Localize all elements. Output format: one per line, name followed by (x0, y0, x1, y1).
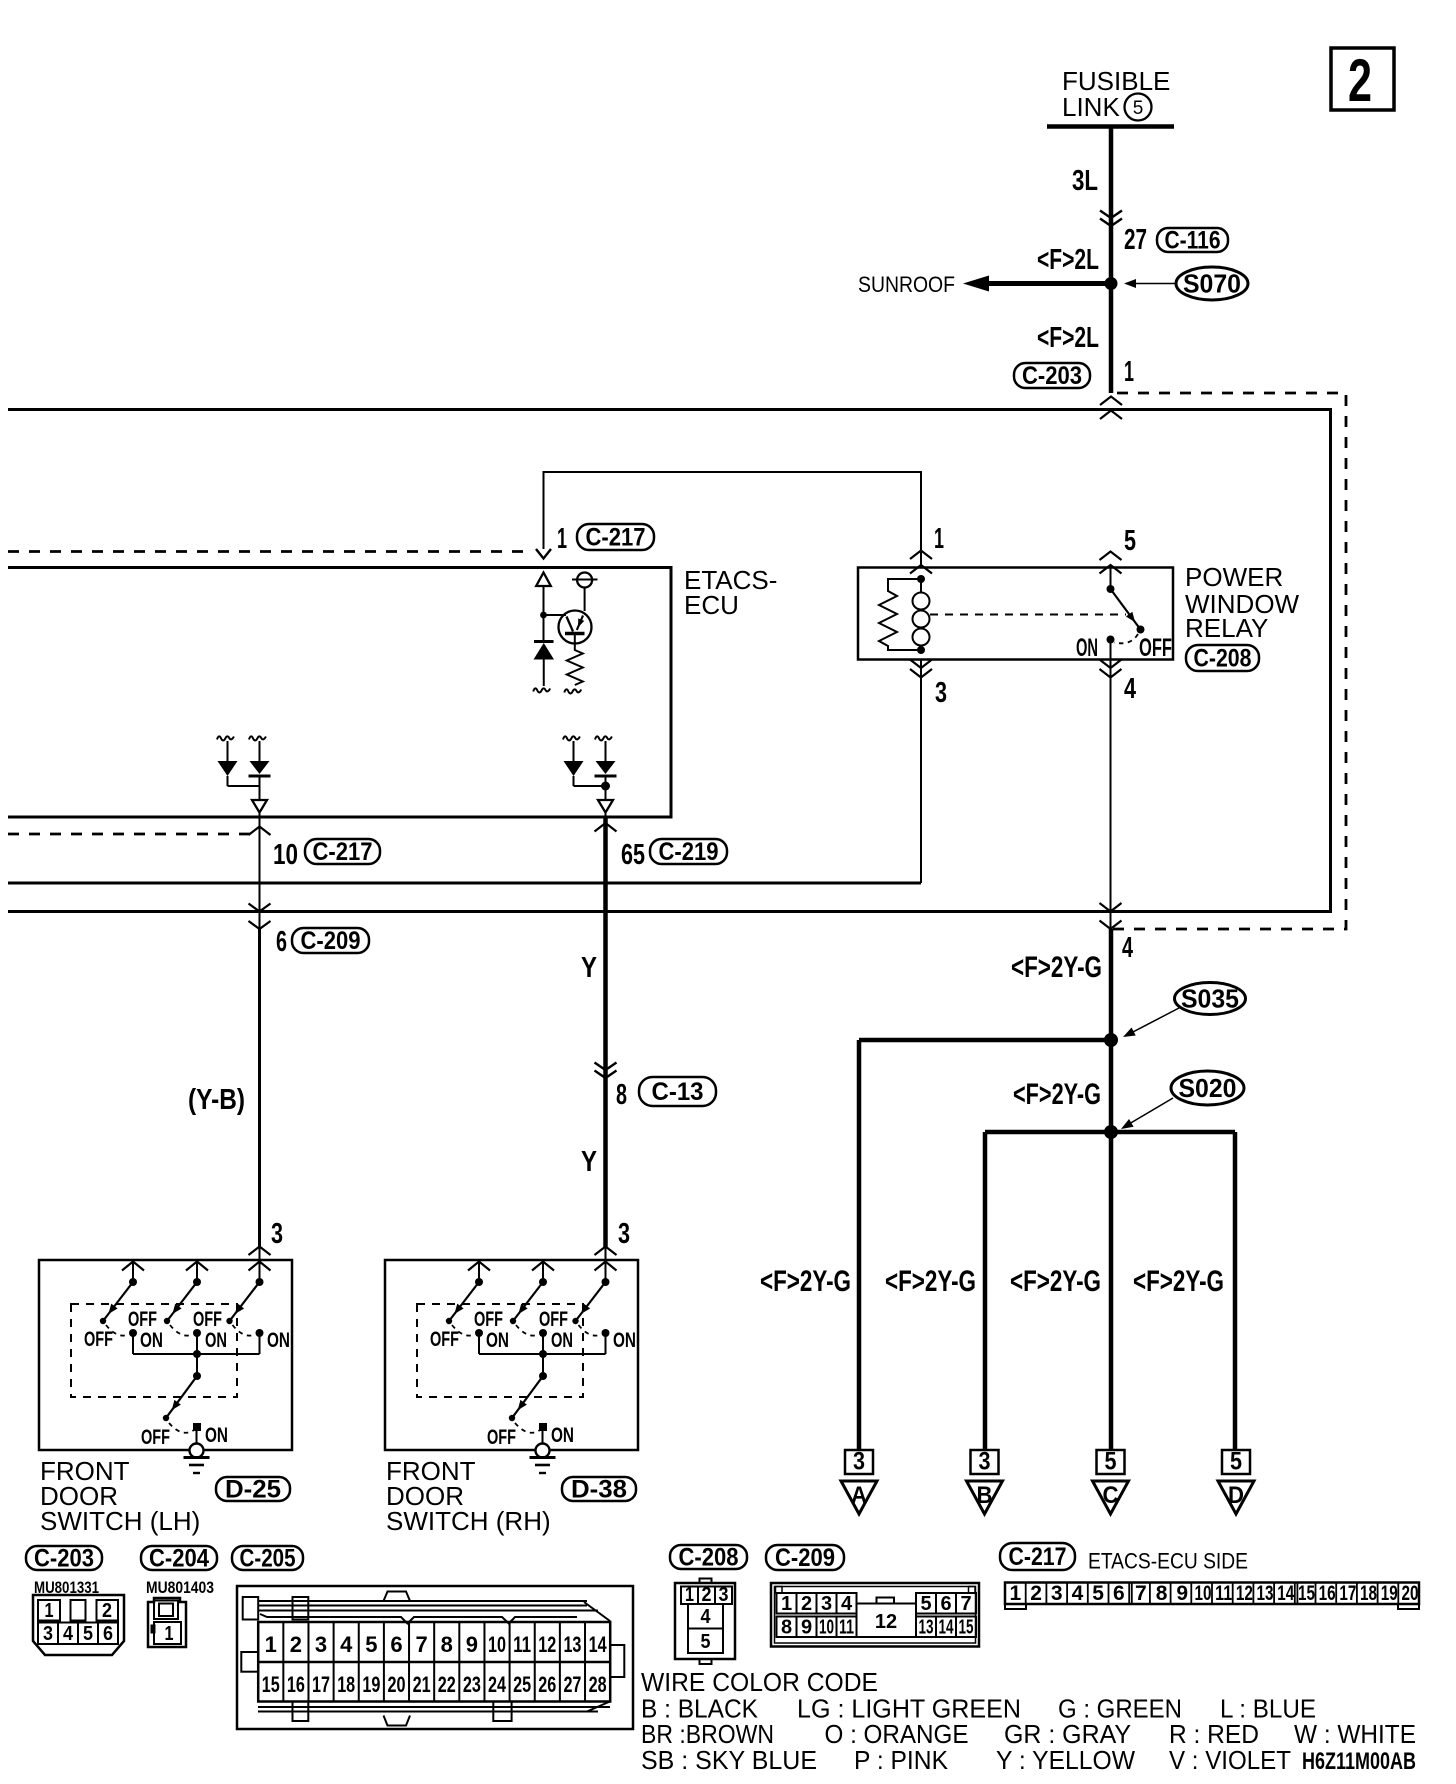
lower lever RH (539, 1350, 547, 1358)
connector label C-203 (26, 1546, 102, 1570)
svg-text:5: 5 (701, 1631, 711, 1653)
svg-text:D-38: D-38 (571, 1476, 627, 1504)
ground (530, 1456, 556, 1459)
svg-text:10: 10 (1194, 1582, 1211, 1605)
svg-text:7: 7 (960, 1593, 971, 1615)
svg-text:D-25: D-25 (225, 1476, 281, 1504)
svg-text:C-13: C-13 (652, 1078, 704, 1106)
svg-text:17: 17 (312, 1672, 330, 1697)
entry chevron RH switch pin3 (595, 1247, 617, 1256)
svg-text:28: 28 (589, 1672, 607, 1697)
svg-text:2: 2 (290, 1632, 302, 1657)
svg-text:V : VIOLET: V : VIOLET (1169, 1745, 1291, 1775)
connector label C-204 (141, 1546, 217, 1570)
arrowhead into C-217 pin1 (536, 549, 551, 559)
svg-text:5: 5 (1230, 1448, 1242, 1476)
wire ETACS pin10 down (Y-B) (259, 817, 261, 929)
svg-text:5: 5 (83, 1623, 93, 1645)
node transistor base (540, 612, 547, 619)
front door switch box LH (39, 1260, 292, 1450)
connector C-217 pin10 (305, 839, 380, 864)
svg-text:<F>2Y-G: <F>2Y-G (885, 1265, 976, 1298)
svg-text:ON: ON (140, 1329, 163, 1352)
svg-text:9: 9 (801, 1617, 812, 1639)
C-205 bottom details (258, 1706, 610, 1708)
svg-text:3: 3 (618, 1218, 630, 1250)
svg-text:ON: ON (613, 1329, 636, 1352)
entry chevrons relay pin1 (910, 551, 932, 560)
junction block box (solid) (8, 410, 1331, 912)
relay ON contact (1107, 636, 1115, 644)
svg-text:3: 3 (43, 1623, 53, 1645)
svg-text:D: D (1228, 1482, 1244, 1509)
ETACS-ECU dashed boundary left bottom (8, 833, 250, 836)
svg-text:1: 1 (781, 1593, 792, 1615)
svg-text:C-217: C-217 (1009, 1543, 1067, 1571)
svg-text:OFF: OFF (84, 1328, 113, 1351)
relay node top (917, 575, 925, 583)
svg-text:LINK: LINK (1062, 92, 1120, 122)
svg-text:2: 2 (1030, 1582, 1042, 1605)
svg-text:OFF: OFF (474, 1308, 503, 1331)
off-page arrow A (845, 1450, 873, 1474)
switch lever 2 RH (532, 1262, 554, 1271)
resistor below transistor (567, 634, 583, 686)
wire relay pin3 down (920, 660, 922, 884)
svg-text:4: 4 (841, 1593, 853, 1615)
svg-text:ON: ON (205, 1424, 228, 1447)
svg-text:5: 5 (1105, 1448, 1117, 1476)
ETACS-ECU dashed connector boundary (right) (1113, 393, 1346, 929)
svg-text:OFF: OFF (128, 1308, 157, 1331)
page-break chevrons on 3L wire (1100, 211, 1122, 219)
svg-text:4: 4 (340, 1632, 353, 1657)
svg-text:12: 12 (538, 1632, 556, 1657)
svg-text:10: 10 (819, 1617, 834, 1639)
front door switch box RH (385, 1260, 638, 1450)
wire relay pin4 down (1110, 660, 1112, 930)
ground post RH (536, 1444, 550, 1458)
svg-text:OFF: OFF (487, 1426, 516, 1449)
svg-text:C-208: C-208 (1194, 645, 1252, 673)
svg-text:1: 1 (165, 1623, 174, 1645)
svg-text:3: 3 (1051, 1582, 1063, 1605)
ground arrow (hollow) (598, 800, 613, 813)
latch top (384, 1592, 411, 1602)
svg-text:2: 2 (801, 1593, 812, 1615)
connector C-217 top (577, 524, 654, 550)
off-page arrow C (1097, 1450, 1125, 1474)
svg-text:3: 3 (719, 1584, 729, 1606)
svg-text:1: 1 (45, 1600, 54, 1622)
connector C-208 relay (1186, 645, 1259, 671)
relay mechanical dashed link (930, 614, 1126, 616)
svg-text:C-208: C-208 (679, 1544, 739, 1572)
svg-text:5: 5 (365, 1632, 377, 1657)
svg-text:18: 18 (337, 1672, 355, 1697)
svg-text:26: 26 (538, 1672, 556, 1697)
svg-text:Y: Y (581, 1146, 597, 1178)
wire 2Y-G main (1109, 929, 1114, 1450)
svg-text:7: 7 (415, 1632, 427, 1657)
svg-text:20: 20 (387, 1672, 405, 1697)
svg-text:2: 2 (1348, 47, 1372, 114)
svg-text:SB : SKY BLUE: SB : SKY BLUE (641, 1745, 817, 1775)
relay contact dashed arc (1114, 634, 1138, 643)
svg-text:C-217: C-217 (586, 524, 646, 552)
junction S020 (1104, 1125, 1118, 1139)
svg-text:C: C (1103, 1482, 1119, 1509)
svg-text:C-203: C-203 (1022, 362, 1082, 390)
svg-text:9: 9 (1176, 1582, 1188, 1605)
svg-text:Y : YELLOW: Y : YELLOW (996, 1745, 1135, 1775)
svg-text:11: 11 (1215, 1582, 1232, 1605)
connector C-209 drawing (771, 1583, 979, 1647)
svg-text:16: 16 (1319, 1582, 1336, 1605)
transistor Q (ETACS) (559, 611, 592, 644)
svg-text:<F>2Y-G: <F>2Y-G (1010, 1265, 1101, 1298)
svg-text:19: 19 (362, 1672, 380, 1697)
svg-text:S020: S020 (1179, 1073, 1237, 1103)
indicator circle (ETACS) (577, 573, 592, 588)
svg-text:1: 1 (934, 523, 944, 555)
svg-text:ON: ON (205, 1329, 227, 1352)
svg-text:<F>2L: <F>2L (1037, 322, 1099, 354)
connector C-209 mid (292, 928, 369, 953)
right lock (610, 1645, 624, 1677)
svg-text:ECU: ECU (684, 590, 739, 620)
svg-text:(Y-B): (Y-B) (188, 1084, 245, 1116)
svg-text:A: A (851, 1482, 867, 1509)
svg-text:3: 3 (315, 1632, 327, 1657)
svg-text:27: 27 (1124, 224, 1147, 256)
entry chevron LH switch pin3 (249, 1247, 271, 1256)
svg-text:12: 12 (875, 1611, 897, 1633)
svg-text:4: 4 (701, 1606, 712, 1628)
relay node bottom (917, 646, 925, 654)
off-page arrow B (971, 1450, 999, 1474)
exit chevrons relay pin4 (1100, 660, 1122, 669)
junction S035 (1104, 1033, 1118, 1047)
svg-text:C-209: C-209 (301, 927, 361, 955)
svg-text:SUNROOF: SUNROOF (858, 272, 955, 297)
svg-text:13: 13 (563, 1632, 581, 1657)
inner dashed box (417, 1304, 583, 1397)
svg-text:WIRE COLOR CODE: WIRE COLOR CODE (641, 1667, 878, 1697)
svg-text:ON: ON (267, 1329, 290, 1352)
svg-text:6: 6 (276, 926, 287, 958)
svg-text:13: 13 (919, 1617, 934, 1639)
connector label C-205 (232, 1546, 303, 1570)
fusible link circled 5 (1125, 94, 1152, 121)
svg-text:1: 1 (265, 1632, 277, 1657)
svg-text:27: 27 (563, 1672, 581, 1697)
svg-text:ON: ON (486, 1329, 509, 1352)
svg-text:12: 12 (1236, 1582, 1253, 1605)
relay resistor (879, 579, 921, 650)
svg-text:6: 6 (390, 1632, 402, 1657)
svg-text:19: 19 (1381, 1582, 1398, 1605)
arrow from S070 callout (1132, 283, 1176, 285)
svg-text:15: 15 (959, 1617, 974, 1639)
svg-text:S070: S070 (1183, 269, 1241, 299)
svg-text:1: 1 (1010, 1582, 1022, 1605)
svg-text:2: 2 (702, 1584, 712, 1606)
switch lever 1 RH (468, 1262, 490, 1271)
svg-text:14: 14 (1277, 1582, 1294, 1605)
svg-text:23: 23 (463, 1672, 481, 1697)
wire Y-B to LH switch (258, 929, 261, 1247)
svg-text:ON: ON (1076, 634, 1098, 662)
ground post LH (190, 1444, 204, 1458)
entry chevrons at C-203 (1100, 397, 1122, 406)
wire to sunroof (989, 281, 1111, 286)
connector label C-209 (766, 1545, 844, 1570)
wire ETACS pin65 down (Y) (603, 817, 608, 1247)
svg-text:22: 22 (438, 1672, 456, 1697)
svg-text:C-204: C-204 (149, 1545, 209, 1573)
svg-text:21: 21 (413, 1672, 431, 1697)
svg-text:6: 6 (103, 1623, 113, 1645)
diode pair at x=227.5 (217, 736, 234, 740)
connector label C-217 (1000, 1543, 1075, 1570)
svg-text:17: 17 (1339, 1582, 1356, 1605)
svg-text:7: 7 (1135, 1582, 1147, 1605)
connector C-203 drawing (33, 1595, 124, 1655)
svg-text:4: 4 (1072, 1582, 1084, 1605)
svg-text:P : PINK: P : PINK (854, 1745, 949, 1775)
svg-text:S035: S035 (1181, 984, 1239, 1014)
svg-text:5: 5 (1124, 525, 1136, 557)
svg-text:RELAY: RELAY (1185, 613, 1268, 643)
latch bottom (384, 1716, 411, 1726)
relay switch (1110, 568, 1112, 590)
svg-text:25: 25 (513, 1672, 531, 1697)
branch wire to A (859, 1038, 1111, 1043)
entry chevrons relay pin5 (1100, 552, 1122, 561)
svg-text:14: 14 (589, 1632, 608, 1657)
svg-text:1: 1 (557, 523, 567, 555)
svg-text:OFF: OFF (539, 1308, 568, 1331)
svg-text:3: 3 (935, 677, 947, 709)
svg-text:ON: ON (551, 1424, 574, 1447)
svg-text:C-209: C-209 (775, 1544, 835, 1572)
wire 3L from fusible link (1109, 127, 1114, 393)
svg-text:SWITCH (LH): SWITCH (LH) (40, 1506, 200, 1536)
transistor group: hollow triangle pin (536, 573, 551, 587)
connector C-204 drawing (148, 1598, 186, 1647)
svg-text:C-217: C-217 (313, 838, 373, 866)
C-205 pin grid (258, 1622, 610, 1702)
svg-text:3L: 3L (1072, 165, 1098, 197)
connector D-38 (562, 1477, 636, 1501)
relay OFF contact (1137, 626, 1145, 634)
svg-text:Y: Y (581, 952, 597, 984)
inner dashed box (71, 1304, 237, 1397)
svg-text:3: 3 (821, 1593, 832, 1615)
connector D-25 (216, 1477, 290, 1501)
connector C-208 drawing (700, 1579, 712, 1584)
wire relay pin1 to C-217 pin1 (544, 472, 922, 568)
svg-text:15: 15 (1298, 1582, 1315, 1605)
svg-text:8: 8 (616, 1079, 627, 1111)
off-page arrow D (1222, 1450, 1250, 1474)
power window relay box (858, 568, 1173, 660)
svg-text:C-219: C-219 (659, 838, 719, 866)
diode pair at x=573.5 (563, 736, 580, 740)
splice S035 (1175, 983, 1246, 1015)
svg-text:POWER: POWER (1185, 562, 1283, 592)
svg-text:ON: ON (551, 1329, 573, 1352)
ground arrow (hollow) (252, 800, 267, 813)
wire to B (983, 1132, 988, 1450)
svg-text:65: 65 (621, 839, 645, 871)
svg-text:OFF: OFF (430, 1328, 459, 1351)
splice S020 (1171, 1071, 1244, 1105)
svg-text:5: 5 (1133, 98, 1144, 119)
svg-text:18: 18 (1360, 1582, 1377, 1605)
zener diode D (ETACS) (534, 640, 554, 643)
ON contact bus (133, 1353, 260, 1355)
connector label C-208 (670, 1545, 747, 1569)
connector C-116 (1157, 228, 1228, 252)
fusible link bus bar (1047, 124, 1174, 129)
connector C-203 (1014, 363, 1090, 388)
svg-text:9: 9 (466, 1632, 478, 1657)
svg-text:<F>2Y-G: <F>2Y-G (1133, 1265, 1224, 1298)
svg-text:6: 6 (1113, 1582, 1125, 1605)
svg-text:SWITCH (RH): SWITCH (RH) (386, 1506, 551, 1536)
svg-text:3: 3 (979, 1448, 991, 1476)
switch lever 1 LH (122, 1262, 144, 1271)
exit chevrons relay pin3 (910, 660, 932, 669)
svg-text:C-205: C-205 (240, 1545, 296, 1573)
svg-text:10: 10 (488, 1632, 506, 1657)
svg-text:15: 15 (262, 1672, 280, 1697)
svg-text:B: B (977, 1482, 993, 1509)
svg-text:6: 6 (940, 1593, 951, 1615)
branch bus B-D (985, 1130, 1235, 1135)
svg-text:<F>2Y-G: <F>2Y-G (1011, 951, 1102, 984)
switch lever 3 LH (249, 1262, 271, 1271)
svg-text:OFF: OFF (141, 1426, 170, 1449)
svg-text:5: 5 (920, 1593, 931, 1615)
page number box 2 (1331, 48, 1394, 110)
wire to D (1233, 1132, 1238, 1450)
svg-text:3: 3 (853, 1448, 865, 1476)
connector C-13 (639, 1077, 716, 1106)
ON contact bus (479, 1353, 606, 1355)
relay coil L (920, 579, 922, 593)
svg-text:13: 13 (1257, 1582, 1274, 1605)
splice S070 (1176, 267, 1248, 300)
chevrons at junction block exit x=1110.5 (1100, 903, 1122, 912)
svg-text:5: 5 (1092, 1582, 1104, 1605)
svg-text:24: 24 (488, 1672, 507, 1697)
switch lever 2 LH (186, 1262, 208, 1271)
svg-text:OFF: OFF (1139, 634, 1172, 662)
svg-text:W : WHITE: W : WHITE (1294, 1719, 1416, 1749)
svg-text:8: 8 (441, 1632, 453, 1657)
connector C-205 drawing (237, 1586, 633, 1729)
svg-text:11: 11 (513, 1632, 531, 1657)
svg-text:ETACS-ECU SIDE: ETACS-ECU SIDE (1088, 1549, 1248, 1574)
svg-text:4: 4 (1122, 932, 1133, 964)
ETACS-ECU box (8, 568, 671, 818)
svg-text:10: 10 (273, 839, 298, 871)
svg-text:<F>2L: <F>2L (1037, 244, 1099, 276)
svg-text:20: 20 (1401, 1582, 1418, 1605)
svg-text:8: 8 (1156, 1582, 1168, 1605)
svg-text:OFF: OFF (193, 1308, 222, 1331)
svg-text:16: 16 (287, 1672, 305, 1697)
svg-text:3: 3 (271, 1218, 283, 1250)
connector C-219 (650, 839, 727, 864)
svg-text:1: 1 (685, 1584, 694, 1606)
svg-text:4: 4 (1124, 673, 1136, 705)
lower lever LH (193, 1350, 201, 1358)
junction S070 (1105, 277, 1118, 290)
ground (184, 1456, 210, 1459)
svg-text:C-203: C-203 (34, 1545, 94, 1573)
svg-text:1: 1 (1124, 356, 1134, 388)
switch lever 3 RH (595, 1262, 617, 1271)
svg-text:4: 4 (63, 1623, 74, 1645)
sunroof arrowhead (963, 276, 989, 292)
svg-text:<F>2Y-G: <F>2Y-G (760, 1265, 851, 1298)
bus wire y=883 (8, 882, 921, 885)
svg-text:8: 8 (781, 1617, 792, 1639)
svg-text:2: 2 (102, 1600, 112, 1622)
svg-text:H6Z11M00AB: H6Z11M00AB (1302, 1748, 1416, 1775)
svg-text:14: 14 (939, 1617, 955, 1639)
ETACS-ECU dashed boundary left top (8, 550, 531, 553)
connector C-217 drawing (1005, 1583, 1419, 1605)
svg-text:11: 11 (839, 1617, 854, 1639)
svg-text:C-116: C-116 (1165, 227, 1221, 255)
svg-text:MU801403: MU801403 (146, 1578, 214, 1597)
svg-text:<F>2Y-G: <F>2Y-G (1013, 1078, 1101, 1111)
